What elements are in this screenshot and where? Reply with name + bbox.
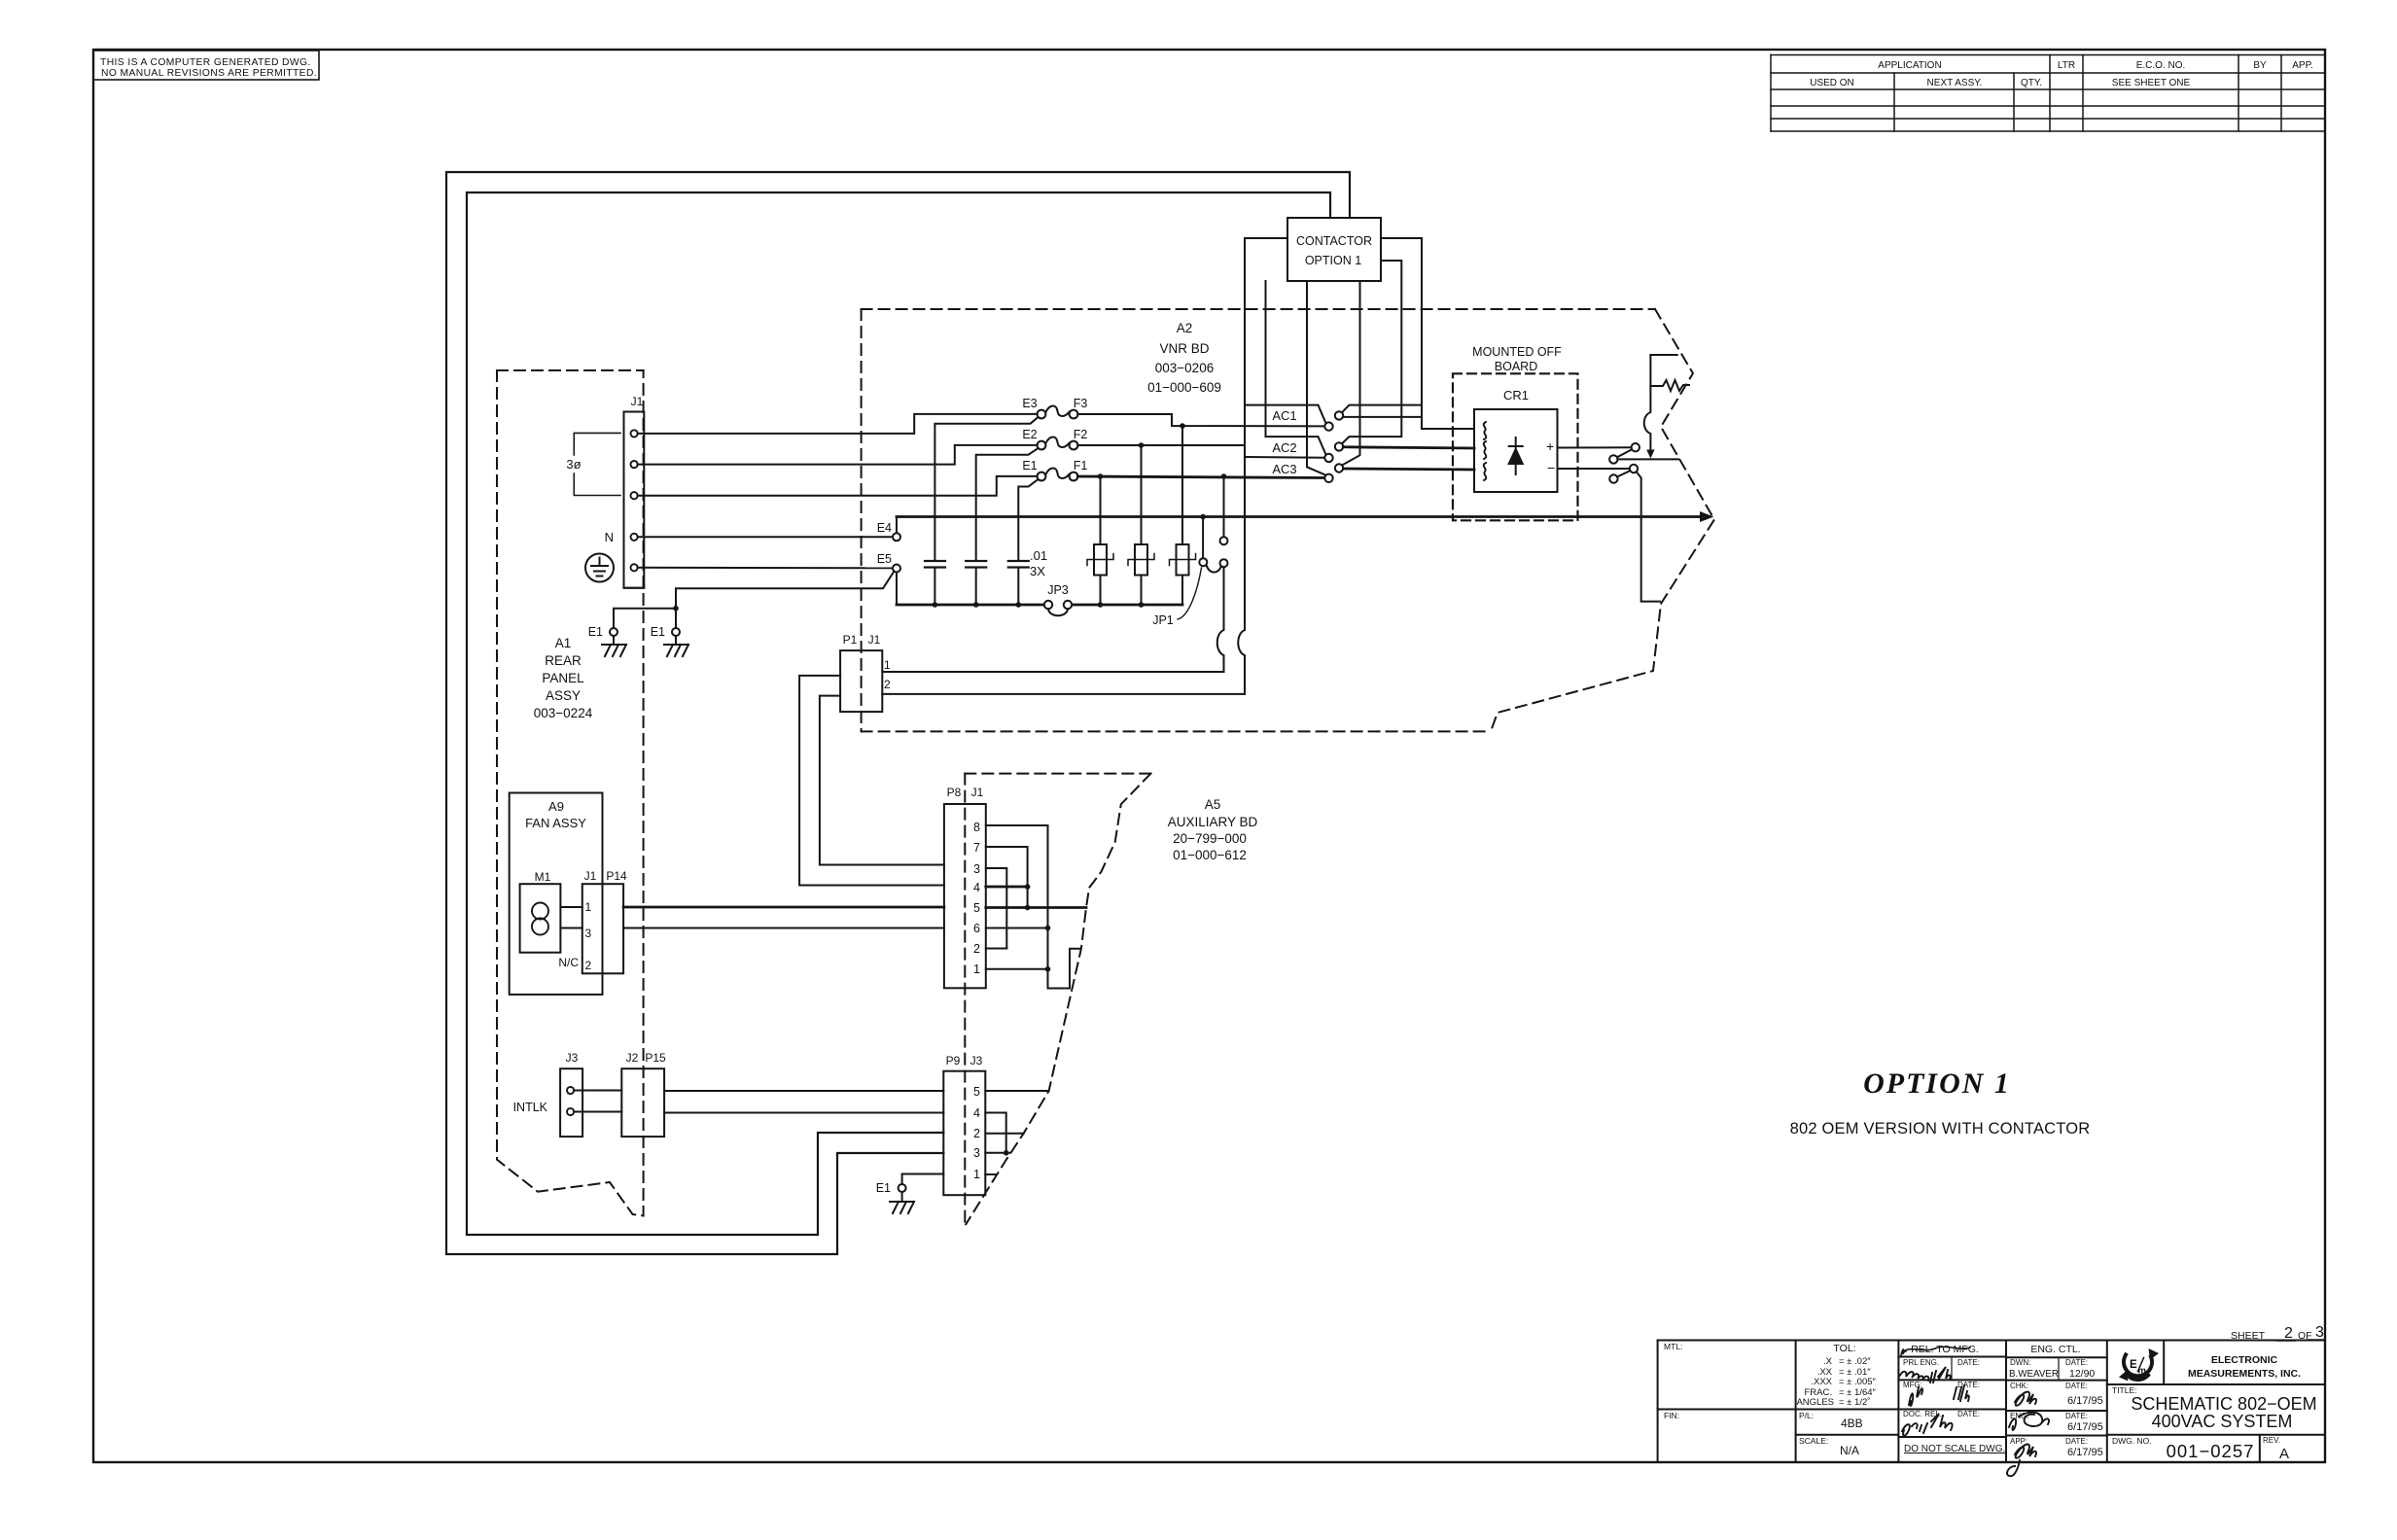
handwritten mark left of header: [1901, 1349, 1906, 1355]
JP1 leader line: [1178, 568, 1202, 619]
svg-text:P/L:: P/L:: [1799, 1411, 1814, 1420]
svg-text:5: 5: [973, 901, 980, 915]
fuse E2/F2: [1038, 437, 1078, 449]
A2 VNR bd text: [1147, 321, 1221, 395]
svg-text:FIN:: FIN:: [1664, 1411, 1679, 1420]
JP1 tap riser from AC3 line: [1223, 476, 1225, 537]
svg-text:J1: J1: [631, 395, 644, 408]
svg-text:N/C: N/C: [558, 956, 579, 969]
svg-text:A1: A1: [555, 636, 572, 650]
wire P8-4 stub: [986, 886, 1028, 889]
JP1 pin (top): [1220, 537, 1228, 544]
svg-text:6/17/95: 6/17/95: [2067, 1395, 2103, 1407]
wire F1 to AC3: [1077, 476, 1324, 478]
svg-text:DATE:: DATE:: [2065, 1382, 2088, 1390]
P1 pin numbers: [884, 658, 891, 691]
APP row: [2010, 1437, 2088, 1446]
wire P1-2 left leg to P8-3: [820, 696, 944, 865]
wire M1 to J1 pin3: [560, 927, 582, 929]
wire + output after switch: [1617, 458, 1678, 460]
svg-text:1: 1: [973, 1168, 980, 1181]
svg-text:THIS IS A COMPUTER GENERATED D: THIS IS A COMPUTER GENERATED DWG.: [100, 57, 311, 68]
P9 pin numbers: [973, 1085, 980, 1181]
MOV RV2 body: [1135, 544, 1147, 576]
J1 box bottom stub: [624, 587, 645, 589]
JP1 pin (left): [1199, 558, 1207, 566]
svg-text:A2: A2: [1177, 321, 1193, 335]
sheet number: [2231, 1324, 2324, 1342]
CR1 diode symbol: [1509, 437, 1523, 474]
JP1 tap riser from neutral bus: [1202, 517, 1204, 559]
E4 riser to neutral bus: [896, 517, 898, 534]
svg-text:6/17/95: 6/17/95: [2067, 1421, 2103, 1433]
wire P8-8 stub and drop: [986, 825, 1080, 989]
terminal E4: [893, 533, 900, 541]
neutral bus arrowhead: [1700, 511, 1714, 522]
connector P9/J3 body: [943, 1071, 985, 1196]
output switch S2 blade: [1617, 471, 1630, 476]
rectifier CR1 body: [1474, 409, 1558, 492]
MOV RV2 bottom lead: [1141, 576, 1143, 606]
wire P1-1 to JP1 drop: [882, 671, 1223, 673]
svg-text:1: 1: [973, 962, 980, 976]
svg-text:12/90: 12/90: [2069, 1368, 2095, 1380]
MOV RV1 top lead: [1100, 476, 1102, 544]
svg-text:JP1: JP1: [1152, 613, 1174, 627]
application table text: [1810, 60, 2313, 88]
wire P8-2 stub: [986, 948, 1007, 950]
MOV RV3 axis line: [1170, 554, 1196, 566]
load return arrowhead: [1646, 450, 1654, 459]
svg-text:OPTION 1: OPTION 1: [1863, 1067, 2011, 1100]
capacitor bottom bus: [897, 604, 1044, 607]
wire JP1 to P1-1 with hop: [1217, 567, 1224, 672]
svg-text:AC3: AC3: [1272, 462, 1296, 476]
svg-text:BOARD: BOARD: [1495, 360, 1537, 373]
svg-text:3: 3: [973, 862, 980, 876]
wire AC2 from riser: [1245, 456, 1325, 459]
DOC REL signature: [1902, 1414, 1953, 1436]
svg-text:2: 2: [973, 1127, 980, 1140]
contactor right riser to AC1 throw/output: [1381, 238, 1474, 429]
CHK row: [2010, 1382, 2088, 1390]
JP1 pin (bottom): [1220, 559, 1228, 567]
svg-text:USED ON: USED ON: [1810, 78, 1854, 88]
wire J3-2 to J2: [574, 1111, 621, 1113]
switch AC1 contacts: [1324, 411, 1343, 431]
PRL ENG row labels: [1903, 1358, 1980, 1367]
jumper JP3: [1044, 601, 1072, 609]
svg-text:2: 2: [973, 942, 980, 956]
A5 auxiliary bd dashed boundary: [965, 774, 1150, 1225]
svg-text:6: 6: [973, 922, 980, 935]
DOC REL row labels: [1903, 1410, 1980, 1418]
junction dot P9-3/4: [1004, 1150, 1009, 1156]
contactor text: [1296, 234, 1372, 267]
MOV RV3 bottom lead: [1181, 576, 1183, 606]
svg-text:E1: E1: [651, 625, 665, 639]
svg-text:3: 3: [585, 927, 592, 940]
svg-text:F1: F1: [1074, 459, 1088, 472]
svg-text:003−0224: 003−0224: [534, 706, 593, 720]
P1 J1 labels: [843, 633, 881, 647]
contactor coil riser (left) with hop: [1238, 238, 1287, 694]
contactor linkage riser to AC3 throw: [1342, 281, 1360, 466]
wire AC3 output to CR1: [1343, 469, 1474, 470]
terminal E1 at P9: [899, 1184, 906, 1192]
svg-text:NO MANUAL REVISIONS ARE PERMIT: NO MANUAL REVISIONS ARE PERMITTED.: [101, 68, 317, 79]
svg-text:PRL ENG.: PRL ENG.: [1903, 1358, 1939, 1367]
svg-text:01−000−609: 01−000−609: [1147, 380, 1221, 395]
load return riser with hop: [1644, 355, 1651, 451]
capacitor C2 bottom lead: [975, 568, 977, 606]
AC1 return diagonal: [1342, 405, 1422, 413]
terminal E1 (second): [672, 628, 680, 636]
switch AC3 contacts: [1324, 464, 1343, 482]
svg-text:7: 7: [973, 841, 980, 855]
chassis ground symbol (second E1): [664, 636, 688, 656]
junction at E1 branch: [673, 606, 679, 612]
svg-text:REV.: REV.: [2263, 1436, 2280, 1445]
phase 3 wire J1-3 to fuse E1: [638, 476, 1038, 496]
svg-text:PANEL: PANEL: [542, 671, 584, 685]
MOV RV1 axis line: [1087, 554, 1113, 566]
wire CR1 - output to switch: [1558, 468, 1630, 470]
MOV RV1 bottom lead: [1100, 576, 1102, 606]
svg-text:AC1: AC1: [1272, 408, 1296, 423]
svg-text:DWG. NO.: DWG. NO.: [2112, 1436, 2152, 1446]
CR1 ac input squiggle 1: [1484, 422, 1487, 439]
wire F3 to AC1: [1077, 414, 1324, 426]
application / ECO revision table: [1771, 55, 2325, 132]
wire P15 to P9-5: [664, 1090, 943, 1092]
svg-text:QTY.: QTY.: [2021, 78, 2042, 88]
wire CR1 + output to switch: [1558, 446, 1632, 448]
3-phase bracket: [574, 433, 620, 495]
wire E1 to P9-1: [902, 1174, 944, 1185]
svg-text:2: 2: [2284, 1325, 2293, 1342]
svg-text:CR1: CR1: [1503, 388, 1529, 402]
connector J1/P14 body: [582, 884, 623, 973]
svg-text:4: 4: [973, 1106, 980, 1120]
capacitor C3 bottom lead: [1017, 568, 1019, 606]
MFG signature: [1909, 1385, 1969, 1406]
svg-text:ANGLES: ANGLES: [1796, 1397, 1834, 1408]
svg-text:001−0257: 001−0257: [2167, 1441, 2255, 1461]
A1 rear panel text: [534, 636, 593, 720]
note box top-left: [93, 51, 319, 80]
load top wire: [1650, 354, 1676, 356]
contactor linkage riser to AC2 blade: [1266, 281, 1326, 455]
svg-text:A9: A9: [548, 799, 564, 814]
svg-text:BY: BY: [2253, 60, 2267, 71]
capacitor C1 bottom lead: [934, 568, 935, 606]
protective earth symbol at J1: [585, 554, 614, 582]
A1 rear panel assy dashed boundary: [497, 370, 644, 1216]
output switch S1 contacts: [1609, 443, 1639, 464]
svg-text:−: −: [1547, 460, 1555, 475]
MFG row labels: [1903, 1381, 1980, 1389]
svg-text:CHK:: CHK:: [2010, 1382, 2028, 1390]
note text: [100, 57, 317, 79]
svg-text:E2: E2: [1022, 428, 1037, 441]
svg-text:802 OEM VERSION WITH CONTACTOR: 802 OEM VERSION WITH CONTACTOR: [1790, 1120, 2091, 1137]
svg-text:3ø: 3ø: [566, 457, 581, 472]
svg-text:MTL:: MTL:: [1664, 1342, 1682, 1351]
MOV RV3 top lead: [1181, 426, 1183, 544]
wire F2 to contactor riser: [1077, 444, 1245, 446]
svg-text:N: N: [605, 530, 614, 544]
svg-text:REAR: REAR: [545, 653, 582, 668]
wire P1-2 to contactor drop: [882, 693, 1245, 695]
svg-text:SEE SHEET ONE: SEE SHEET ONE: [2112, 78, 2191, 88]
wire P9-2 stub: [985, 1133, 1023, 1135]
MOV RV1 body: [1094, 544, 1107, 576]
svg-text:01−000−612: 01−000−612: [1173, 848, 1247, 862]
svg-text:DATE:: DATE:: [1957, 1358, 1980, 1367]
svg-text:F2: F2: [1074, 428, 1088, 441]
PRL ENG signature: [1899, 1367, 1951, 1382]
P9 J3 labels: [946, 1054, 983, 1067]
svg-text:2: 2: [884, 678, 891, 691]
terminal E5: [893, 565, 900, 573]
svg-text:A5: A5: [1205, 797, 1221, 812]
svg-text:E4: E4: [877, 521, 892, 535]
svg-text:P1: P1: [843, 633, 858, 647]
drawing title: [2131, 1394, 2316, 1431]
svg-text:ELECTRONIC: ELECTRONIC: [2211, 1354, 2278, 1366]
wire inner loop (contactor top feed to P9-J3 pin 2): [467, 192, 1330, 1235]
J3 pins: [567, 1087, 574, 1115]
connector P1/J1 body: [840, 650, 882, 712]
MOV RV3 body: [1177, 544, 1189, 576]
svg-text:= ± .02″: = ± .02″: [1839, 1356, 1871, 1367]
junction dots at P8: [1025, 884, 1051, 971]
P8 J1 labels: [947, 786, 984, 799]
svg-text:APP.: APP.: [2292, 60, 2313, 71]
terminal E1 (left): [610, 628, 617, 636]
mounted off board dashed box: [1453, 373, 1578, 520]
wire P9-4 stub and drop: [985, 1113, 1005, 1153]
capacitor value label .01 3X: [1030, 548, 1047, 578]
J1 pin circles: [631, 430, 638, 571]
svg-text:B.WEAVER: B.WEAVER: [2009, 1369, 2059, 1380]
EMI logo letters: [2130, 1358, 2146, 1377]
neutral bus E4 to off-board arrow: [897, 515, 1706, 518]
AC1 output from throw: [1343, 416, 1422, 418]
svg-text:J1: J1: [971, 786, 984, 799]
svg-text:P9: P9: [946, 1054, 961, 1067]
svg-text:SHEET: SHEET: [2231, 1330, 2266, 1342]
svg-text:SCHEMATIC 802−OEM: SCHEMATIC 802−OEM: [2131, 1394, 2316, 1414]
wire - return drop to boundary: [1637, 472, 1660, 601]
svg-text:1: 1: [585, 900, 592, 914]
svg-text:3: 3: [973, 1146, 980, 1160]
svg-text:P8: P8: [947, 786, 962, 799]
wire P8-1 stub: [986, 968, 1048, 970]
contactor linkage riser to AC3 blade: [1307, 281, 1326, 475]
svg-text:A: A: [2279, 1446, 2289, 1462]
JP3 arc: [1048, 609, 1068, 615]
wire M1 to J1 pin1: [560, 906, 582, 908]
CHK signature: [2015, 1392, 2036, 1406]
svg-text:6/17/95: 6/17/95: [2067, 1447, 2103, 1458]
ENG signature: [2009, 1413, 2049, 1430]
svg-text:F3: F3: [1074, 397, 1088, 410]
svg-text:VNR BD: VNR BD: [1159, 341, 1209, 356]
svg-text:4: 4: [973, 881, 980, 894]
wire P8-7 stub and drop: [986, 847, 1028, 908]
wire P8-3 stub and drop: [986, 868, 1007, 949]
neutral wire J1-4 to E4: [638, 536, 894, 538]
output switch S1 blade: [1617, 449, 1632, 457]
title block frame: [1658, 1340, 2325, 1342]
A9 labels: [525, 799, 586, 830]
svg-text:SCALE:: SCALE:: [1799, 1436, 1828, 1446]
svg-text:ENG. CTL.: ENG. CTL.: [2030, 1344, 2080, 1355]
output switch S2 contacts: [1609, 465, 1638, 483]
svg-text:.X: .X: [1823, 1356, 1833, 1367]
svg-text:P14: P14: [606, 869, 627, 883]
APP signature with flourish: [2007, 1445, 2036, 1477]
svg-text:M1: M1: [535, 870, 551, 884]
svg-text:J1: J1: [584, 869, 597, 883]
REL TO MFG strike mark: [1903, 1347, 1970, 1351]
P8 pin numbers: [973, 821, 980, 976]
svg-text:20−799−000: 20−799−000: [1173, 831, 1247, 846]
ground wire J1-5 to E5: [638, 567, 893, 570]
fuse E1/F1: [1038, 468, 1078, 480]
MOV RV2 top lead: [1141, 445, 1143, 544]
wire outer loop (contactor top feed to P9-J3 pin 3): [446, 172, 1350, 1254]
svg-text:DATE:: DATE:: [2065, 1437, 2088, 1446]
DWN row: [2010, 1358, 2088, 1367]
svg-text:2: 2: [585, 959, 592, 972]
svg-text:E1: E1: [1022, 459, 1037, 472]
CR1 ac input squiggle 2: [1484, 441, 1487, 459]
svg-text:.XXX: .XXX: [1811, 1377, 1832, 1387]
svg-text:CONTACTOR: CONTACTOR: [1296, 234, 1372, 248]
svg-text:AUXILIARY BD: AUXILIARY BD: [1168, 815, 1258, 829]
wire AC2 output to CR1: [1343, 447, 1474, 448]
svg-text:DWN:: DWN:: [2010, 1358, 2030, 1367]
A5 auxiliary bd text: [1168, 797, 1258, 862]
capacitor C1 plates: [925, 561, 945, 568]
svg-text:DATE:: DATE:: [2065, 1412, 2088, 1420]
E5 drop to capacitor bottom bus: [896, 573, 898, 606]
J1/P14 pin labels: [558, 900, 591, 972]
svg-text:J3: J3: [970, 1054, 983, 1067]
wire P9-3 stub: [985, 1152, 1010, 1154]
fan motor M1 body: [520, 884, 561, 953]
load resistor R: [1650, 380, 1689, 391]
company name: [2188, 1354, 2301, 1380]
svg-text:MOUNTED OFF: MOUNTED OFF: [1472, 345, 1562, 359]
svg-text:E5: E5: [877, 552, 892, 566]
sheet underlines: [2276, 1340, 2324, 1341]
svg-text:J2: J2: [626, 1051, 639, 1065]
svg-text:J3: J3: [566, 1051, 579, 1065]
contactor option 1 box: [1287, 218, 1381, 281]
svg-text:LTR: LTR: [2058, 60, 2075, 71]
mounted off board text: [1472, 345, 1562, 373]
E5 branch wire to chassis grounds E1: [676, 572, 894, 628]
svg-text:N/A: N/A: [1840, 1444, 1859, 1457]
svg-text:= ± .005″: = ± .005″: [1839, 1377, 1877, 1387]
connector J2/P15 body: [621, 1068, 664, 1137]
wire J3-1 to J2: [574, 1090, 621, 1092]
svg-text:E1: E1: [588, 625, 603, 639]
svg-text:DATE:: DATE:: [2065, 1358, 2088, 1367]
svg-text:3X: 3X: [1030, 564, 1045, 578]
capacitor C2 feed wire to E2: [976, 448, 1039, 561]
svg-text:P15: P15: [645, 1051, 666, 1065]
wire P8-5 stub: [986, 906, 1086, 909]
JP1 jumper arc: [1207, 566, 1221, 573]
A9 fan assy box: [510, 793, 603, 995]
AC1 blade arm from coil riser: [1245, 405, 1326, 424]
svg-text:JP3: JP3: [1047, 583, 1069, 597]
J1 P14 labels: [584, 869, 627, 883]
connector J1 (rear panel) body: [624, 412, 645, 588]
svg-text:NEXT ASSY.: NEXT ASSY.: [1927, 78, 1983, 88]
svg-text:E: E: [2130, 1359, 2137, 1371]
connector P8/J1 body: [944, 804, 986, 988]
svg-text:ASSY: ASSY: [546, 688, 581, 703]
junction dots on bottom bus: [933, 602, 1145, 608]
interlock connector J3 body: [560, 1068, 582, 1137]
capacitor C1 feed wire to E3: [934, 417, 1038, 561]
contactor right riser to AC2 throw: [1342, 261, 1401, 443]
svg-text:DO NOT SCALE DWG.: DO NOT SCALE DWG.: [1904, 1444, 2005, 1454]
svg-text:E1: E1: [876, 1181, 891, 1195]
J2 P15 labels: [626, 1051, 666, 1065]
A2 VNR bd dashed boundary: [862, 309, 1714, 731]
MOV RV2 axis line: [1128, 554, 1154, 566]
svg-text:400VAC SYSTEM: 400VAC SYSTEM: [2152, 1412, 2293, 1431]
wire P15 to P9-4: [664, 1112, 943, 1114]
svg-text:3: 3: [2315, 1324, 2324, 1341]
chassis ground symbol (left E1): [602, 636, 626, 656]
svg-text:1: 1: [884, 658, 891, 672]
svg-text:INTLK: INTLK: [513, 1101, 548, 1114]
svg-text:FAN ASSY: FAN ASSY: [525, 816, 586, 830]
svg-text:E.C.O. NO.: E.C.O. NO.: [2136, 60, 2186, 71]
junction dots on phase lines: [1098, 423, 1227, 519]
tolerance cell: [1796, 1343, 1876, 1408]
phase 1 wire J1-1 to fuse E3: [638, 414, 1038, 434]
wire to left E1 ground: [614, 609, 676, 628]
svg-text:.01: .01: [1030, 548, 1047, 563]
svg-text:8: 8: [973, 821, 980, 834]
svg-text:TOL:: TOL:: [1833, 1343, 1855, 1354]
fuse E3/F3: [1038, 405, 1078, 418]
phase 2 wire J1-2 to fuse E2: [638, 445, 1038, 465]
svg-text:APPLICATION: APPLICATION: [1878, 60, 1941, 71]
svg-text:4BB: 4BB: [1841, 1417, 1863, 1430]
svg-text:DATE:: DATE:: [1957, 1410, 1980, 1418]
chassis ground symbol (E1 at P9): [890, 1192, 914, 1213]
wire P9-1 stub: [985, 1173, 995, 1175]
svg-text:+: +: [1546, 438, 1554, 454]
svg-text:5: 5: [973, 1085, 980, 1099]
ENG row: [2010, 1412, 2088, 1420]
capacitor C2 plates: [966, 561, 986, 568]
svg-text:003−0206: 003−0206: [1155, 361, 1214, 375]
wire P14-1 to P8-5: [623, 906, 944, 909]
fan symbol in M1: [532, 903, 548, 935]
EMI logo circular arrows: [2119, 1348, 2159, 1382]
